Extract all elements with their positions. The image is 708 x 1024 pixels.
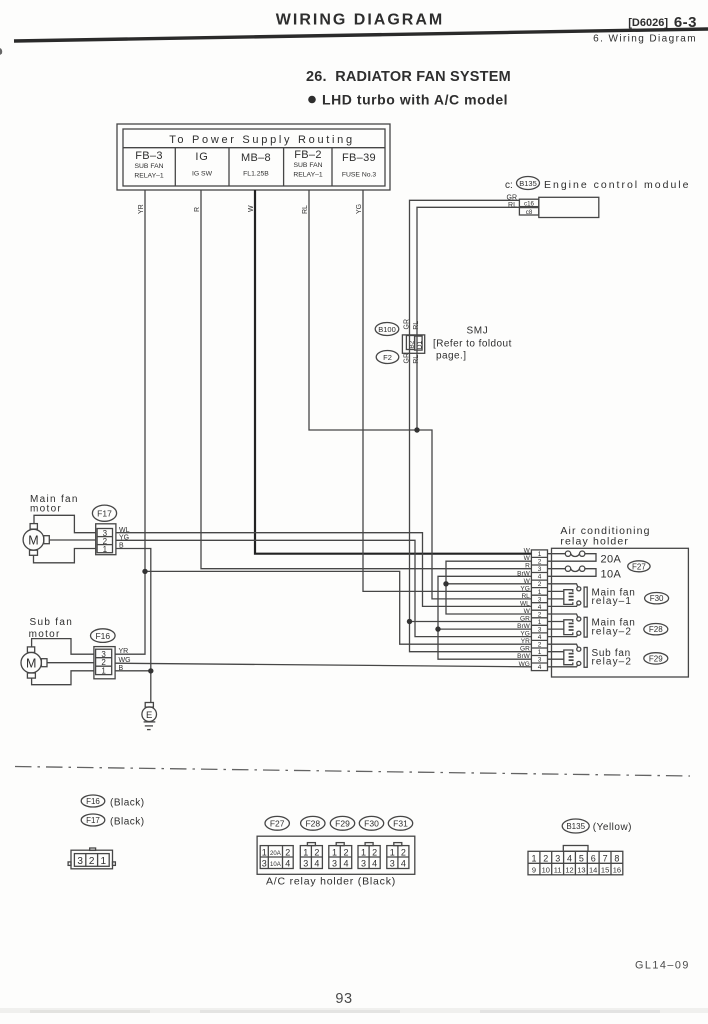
svg-text:1: 1 xyxy=(538,551,542,558)
wire label GR (at ECM) xyxy=(507,194,518,201)
wire label W (power box) xyxy=(248,205,255,212)
svg-text:1: 1 xyxy=(390,848,395,858)
wire YR net from FB-3 to sub fan motor pin 3 xyxy=(115,190,145,654)
air conditioning relay holder title xyxy=(560,525,650,547)
svg-text:10A: 10A xyxy=(270,862,281,868)
svg-text:4: 4 xyxy=(372,859,377,869)
svg-text:YR: YR xyxy=(521,638,530,645)
wire W return from fuse row 2 to relay contacts rows 5 and 9 xyxy=(446,561,531,614)
svg-text:4: 4 xyxy=(538,664,542,671)
svg-text:4: 4 xyxy=(538,604,542,611)
wire RL from ECM pin c8 xyxy=(417,207,519,430)
page edge mark top-left xyxy=(0,48,2,55)
wire label WL (main fan pin 3) xyxy=(119,527,130,534)
fuse cell FB-39 FUSE No.3 xyxy=(342,152,377,179)
relay K2 Main fan relay-2 xyxy=(548,614,588,637)
connector oval F2 xyxy=(376,351,399,364)
svg-text:c:: c: xyxy=(505,180,513,191)
svg-text:3: 3 xyxy=(77,856,83,867)
svg-text:F28: F28 xyxy=(305,819,320,829)
svg-text:2: 2 xyxy=(285,848,290,858)
svg-text:20A: 20A xyxy=(601,553,622,565)
svg-text:motor: motor xyxy=(30,504,62,515)
svg-text:F30: F30 xyxy=(364,819,379,829)
svg-text:5: 5 xyxy=(579,854,584,864)
SMJ connector box xyxy=(402,335,424,353)
svg-text:11: 11 xyxy=(554,866,562,875)
connector oval F29 xyxy=(644,653,668,664)
svg-text:4: 4 xyxy=(538,574,542,581)
sub fan motor label xyxy=(29,617,73,640)
wire B from sub fan pin 1 xyxy=(115,670,151,672)
legend relay block F31 pins xyxy=(387,843,409,869)
connector oval F27 xyxy=(628,561,650,572)
svg-text:1: 1 xyxy=(332,848,337,858)
legend oval F28 xyxy=(301,816,325,830)
svg-text:3: 3 xyxy=(361,859,366,869)
svg-text:B: B xyxy=(119,665,124,672)
svg-text:F27: F27 xyxy=(270,819,285,829)
svg-text:7: 7 xyxy=(603,854,608,864)
svg-text:(Yellow): (Yellow) xyxy=(593,822,632,833)
svg-text:BrW: BrW xyxy=(517,653,531,660)
svg-text:WL: WL xyxy=(119,527,130,534)
svg-text:FL1.25B: FL1.25B xyxy=(243,171,269,178)
svg-text:F17: F17 xyxy=(86,816,100,825)
svg-text:F2: F2 xyxy=(383,353,392,362)
svg-text:F29: F29 xyxy=(649,654,663,663)
svg-text:4: 4 xyxy=(343,859,348,869)
legend relay block F29 pins xyxy=(329,843,352,869)
svg-text:3: 3 xyxy=(262,859,267,869)
SMJ pin D1 xyxy=(415,336,424,350)
svg-text:2: 2 xyxy=(538,559,542,566)
svg-text:[Refer to foldout: [Refer to foldout xyxy=(433,339,512,350)
svg-text:YR: YR xyxy=(119,648,129,655)
svg-text:8: 8 xyxy=(614,854,619,864)
power supply routing box outer frame xyxy=(117,124,390,190)
legend caption A/C relay holder (Black) xyxy=(266,876,396,888)
wire WG from sub fan pin 2 to relay holder row 16 xyxy=(115,663,531,667)
wire RL net from FB-2 to relay holder row 7 xyxy=(309,190,531,599)
power supply routing box inner frame xyxy=(123,129,385,186)
wire label YR (power box) xyxy=(138,204,145,214)
legend oval F29 xyxy=(330,816,354,830)
svg-text:M: M xyxy=(26,657,36,671)
node BrW junction row 11 xyxy=(435,626,440,631)
svg-text:10: 10 xyxy=(542,866,550,875)
svg-text:BrW: BrW xyxy=(517,570,531,577)
svg-text:2: 2 xyxy=(401,848,406,858)
wire WL from main fan pin 3 to relay holder row 8 xyxy=(116,533,532,607)
svg-text:SUB FAN: SUB FAN xyxy=(134,163,163,170)
legend fuse block cells 1 20A 2 / 3 10A 4 xyxy=(260,846,293,869)
svg-text:RL: RL xyxy=(302,205,309,214)
header section label 6. Wiring Diagram xyxy=(593,34,697,45)
svg-text:2: 2 xyxy=(343,848,348,858)
svg-text:W: W xyxy=(524,608,531,615)
section subtitle LHD turbo with A/C model xyxy=(308,92,508,108)
svg-text:1: 1 xyxy=(361,848,366,858)
wire sub fan motor to connector pin 1 xyxy=(32,671,94,685)
svg-text:13: 13 xyxy=(577,866,585,875)
svg-text:SMJ: SMJ xyxy=(467,326,489,337)
svg-text:(Black): (Black) xyxy=(110,816,145,827)
svg-text:[D6026]: [D6026] xyxy=(628,17,668,29)
node RL junction xyxy=(414,427,419,432)
wire label RL (above SMJ) xyxy=(413,321,420,330)
svg-text:F16: F16 xyxy=(86,797,100,806)
fuse cell MB-8 FL1.25B xyxy=(241,152,271,178)
main fan motor label xyxy=(30,494,79,515)
legend A/C relay holder box xyxy=(257,836,415,874)
power box title To Power Supply Routing xyxy=(169,134,355,146)
svg-text:6. Wiring Diagram: 6. Wiring Diagram xyxy=(593,34,697,45)
svg-text:1: 1 xyxy=(101,856,107,867)
node W junction row 5 xyxy=(443,581,448,586)
wire label YG (power box) xyxy=(356,204,363,214)
svg-text:F30: F30 xyxy=(650,594,664,603)
fuse cell IG / IG SW xyxy=(192,151,213,178)
header thick rule xyxy=(14,29,708,41)
wire label B (sub fan pin 1) xyxy=(119,665,124,672)
svg-text:GR: GR xyxy=(520,646,530,653)
svg-text:3: 3 xyxy=(555,854,560,864)
node YR junction xyxy=(142,569,147,574)
scan shadow band bottom xyxy=(0,1008,708,1013)
svg-text:B135: B135 xyxy=(566,822,585,831)
svg-text:B100: B100 xyxy=(378,325,396,334)
sub fan motor M2 xyxy=(21,647,47,678)
relay holder pin strip xyxy=(531,550,547,671)
svg-text:20A: 20A xyxy=(270,851,281,857)
svg-text:14: 14 xyxy=(589,866,597,875)
svg-text:9: 9 xyxy=(532,866,536,875)
ground E xyxy=(142,703,157,730)
legend oval F17 (Black) xyxy=(81,814,144,827)
wire main fan motor to connector pin 2 xyxy=(49,539,95,541)
svg-text:GR: GR xyxy=(520,616,530,623)
svg-text:1: 1 xyxy=(101,667,106,676)
legend oval F16 (Black) xyxy=(81,795,144,808)
wire sub fan motor to connector pin 2 xyxy=(47,662,94,664)
svg-text:RELAY–1: RELAY–1 xyxy=(134,173,164,180)
wire main fan motor to connector pin 1 xyxy=(34,549,96,563)
wire label GR (above SMJ) xyxy=(403,319,410,330)
svg-text:relay–1: relay–1 xyxy=(592,596,633,607)
svg-text:1: 1 xyxy=(538,649,542,656)
svg-text:c16: c16 xyxy=(524,201,535,208)
connector oval F16 xyxy=(91,629,116,643)
svg-text:B135: B135 xyxy=(519,179,537,188)
connector oval B100 xyxy=(375,323,399,336)
svg-text:WG: WG xyxy=(119,657,131,664)
svg-text:WL: WL xyxy=(520,600,530,607)
svg-text:M: M xyxy=(28,534,38,548)
svg-text:LHD turbo with A/C model: LHD turbo with A/C model xyxy=(322,92,508,108)
svg-text:WIRING DIAGRAM: WIRING DIAGRAM xyxy=(276,12,444,29)
svg-text:A/C relay holder (Black): A/C relay holder (Black) xyxy=(266,876,396,888)
header page code [D6026] 6-3 xyxy=(628,14,697,31)
svg-text:W: W xyxy=(524,555,531,562)
svg-text:MB–8: MB–8 xyxy=(241,152,271,164)
fuse 10A xyxy=(548,566,622,580)
svg-text:B: B xyxy=(119,543,124,550)
wire label B (main fan pin 1) xyxy=(119,543,124,550)
svg-text:1: 1 xyxy=(303,848,308,858)
ECM pin c16 xyxy=(519,199,538,207)
wire YG from main fan pin 2 to relay holder row 12 xyxy=(116,540,532,636)
svg-text:IG SW: IG SW xyxy=(192,171,213,178)
wire YG net from FB-39 to relay holder row 6 xyxy=(363,190,531,591)
section title 26. RADIATOR FAN SYSTEM xyxy=(306,69,511,85)
legend oval F27 xyxy=(265,816,289,830)
svg-text:4: 4 xyxy=(538,634,542,641)
svg-text:1: 1 xyxy=(538,589,542,596)
svg-text:2: 2 xyxy=(372,848,377,858)
svg-text:RL: RL xyxy=(413,321,420,330)
svg-text:RL: RL xyxy=(413,355,420,364)
svg-text:1: 1 xyxy=(262,848,267,858)
svg-text:RL: RL xyxy=(521,593,530,600)
wire GR net from ECM pin c16 through SMJ to rows 10 and 14 xyxy=(410,200,532,651)
wire W net (thick) from MB-8 to relay holder row 1 xyxy=(255,190,531,554)
svg-text:2: 2 xyxy=(538,642,542,649)
svg-text:4: 4 xyxy=(567,854,572,864)
connector oval F17 xyxy=(92,505,116,521)
header title WIRING DIAGRAM xyxy=(276,12,444,29)
svg-text:W: W xyxy=(524,578,531,585)
wire sub fan motor to connector pin 3 xyxy=(32,639,94,655)
svg-text:R: R xyxy=(525,563,530,570)
wire label R (power box) xyxy=(194,207,201,212)
svg-text:3: 3 xyxy=(332,859,337,869)
legend fan connector pinout 3 2 1 xyxy=(68,848,115,869)
svg-text:16: 16 xyxy=(613,866,621,875)
svg-text:2: 2 xyxy=(538,581,542,588)
relay K1 label xyxy=(592,587,636,607)
connector oval F28 xyxy=(644,624,668,635)
svg-text:Sub fan: Sub fan xyxy=(30,617,74,628)
svg-text:4: 4 xyxy=(314,859,319,869)
svg-text:3: 3 xyxy=(538,657,542,664)
SMJ note text xyxy=(433,326,512,362)
connector oval F30 xyxy=(645,593,669,604)
svg-text:YR: YR xyxy=(138,204,145,214)
svg-text:15: 15 xyxy=(601,866,609,875)
ECM pin c8 xyxy=(519,208,538,216)
svg-text:4: 4 xyxy=(285,859,290,869)
svg-text:4: 4 xyxy=(401,859,406,869)
svg-text:93: 93 xyxy=(335,991,352,1007)
svg-text:relay–2: relay–2 xyxy=(592,626,633,637)
wire R net from IG to relay holder row 3 xyxy=(201,190,531,569)
svg-text:2: 2 xyxy=(314,848,319,858)
legend B135 connector pinout 1-16 xyxy=(528,846,623,875)
relay K3 label xyxy=(592,648,633,668)
svg-text:c8: c8 xyxy=(526,209,533,216)
wire label YG (main fan pin 2) xyxy=(119,534,129,541)
svg-text:FUSE No.3: FUSE No.3 xyxy=(342,172,377,179)
wire label RL (below SMJ) xyxy=(413,355,420,364)
svg-text:F28: F28 xyxy=(649,625,663,634)
relay holder main box xyxy=(552,548,689,677)
svg-text:page.]: page.] xyxy=(436,351,467,362)
ECM label c:(B135) Engine control module xyxy=(505,177,690,192)
svg-text:1: 1 xyxy=(531,854,536,864)
fuse cell FB-3 SUB FAN RELAY-1 xyxy=(134,150,164,180)
svg-text:Engine control module: Engine control module xyxy=(544,179,690,191)
svg-text:3: 3 xyxy=(538,627,542,634)
svg-text:26. RADIATOR FAN SYSTEM: 26. RADIATOR FAN SYSTEM xyxy=(306,69,511,85)
svg-text:12: 12 xyxy=(565,866,573,875)
svg-text:2: 2 xyxy=(538,611,542,618)
svg-text:YG: YG xyxy=(119,534,129,541)
wire label WG (sub fan pin 2) xyxy=(119,657,131,664)
svg-text:3: 3 xyxy=(538,566,542,573)
legend oval F30 xyxy=(359,816,383,830)
connector F16 pins 3 2 1 xyxy=(94,647,115,679)
svg-text:1: 1 xyxy=(103,545,108,554)
svg-text:SUB FAN: SUB FAN xyxy=(293,162,322,169)
ECM U1 box xyxy=(539,197,599,217)
wire main fan motor to connector pin 3 xyxy=(34,515,96,532)
wire BrW net rows 4 11 15 xyxy=(438,576,531,659)
node GR junction row 10 xyxy=(407,619,412,624)
svg-text:F31: F31 xyxy=(393,819,408,829)
svg-text:3: 3 xyxy=(303,859,308,869)
svg-text:3: 3 xyxy=(538,596,542,603)
svg-text:GL14–09: GL14–09 xyxy=(635,960,690,972)
node B ground junction xyxy=(148,668,153,673)
svg-text:2: 2 xyxy=(543,854,548,864)
svg-text:relay holder: relay holder xyxy=(560,535,629,547)
legend oval F31 xyxy=(388,816,412,830)
relay K3 Sub fan relay-2 xyxy=(548,644,588,667)
relay K1 Main fan relay-1 xyxy=(548,584,588,607)
svg-text:R: R xyxy=(194,207,201,212)
svg-text:2: 2 xyxy=(89,856,95,867)
legend relay block F30 pins xyxy=(358,843,380,869)
svg-text:3: 3 xyxy=(390,859,395,869)
dash-dot separator rule xyxy=(15,767,690,777)
svg-text:1: 1 xyxy=(538,619,542,626)
relay holder pin numbers xyxy=(538,551,542,671)
svg-text:(Black): (Black) xyxy=(110,797,145,808)
connector F17 pins 3 2 1 xyxy=(96,524,116,555)
relay holder wire color labels xyxy=(517,548,531,668)
wire B from main fan pin 1 to ground xyxy=(116,549,151,703)
svg-text:IG: IG xyxy=(195,151,208,163)
page number 93 xyxy=(335,991,352,1007)
wire label GR (below SMJ) xyxy=(403,353,410,364)
legend oval B135 (Yellow) xyxy=(562,819,632,833)
svg-text:YG: YG xyxy=(520,585,529,592)
wire label RL (at ECM) xyxy=(508,202,517,209)
svg-text:BrW: BrW xyxy=(517,623,531,630)
SMJ pin B2 xyxy=(406,336,415,350)
svg-text:F17: F17 xyxy=(97,509,112,519)
svg-text:E: E xyxy=(146,710,152,721)
svg-text:F27: F27 xyxy=(632,562,646,571)
svg-text:F29: F29 xyxy=(335,819,350,829)
svg-text:FB–3: FB–3 xyxy=(135,150,163,162)
legend relay block F28 pins xyxy=(300,843,322,869)
drawing number GL14-09 xyxy=(635,960,690,972)
wire label YR (sub fan pin 3) xyxy=(119,648,129,655)
svg-text:10A: 10A xyxy=(601,568,622,580)
svg-text:FB–39: FB–39 xyxy=(342,152,376,164)
svg-text:relay–2: relay–2 xyxy=(592,657,633,668)
svg-text:WG: WG xyxy=(519,661,530,668)
fuse 20A xyxy=(548,551,622,565)
svg-text:F16: F16 xyxy=(95,631,110,641)
svg-text:6: 6 xyxy=(591,854,596,864)
main fan motor M1 xyxy=(23,524,49,556)
wire label RL (power box) xyxy=(302,205,309,214)
svg-text:FB–2: FB–2 xyxy=(294,149,322,161)
svg-text:YG: YG xyxy=(520,631,529,638)
relay K2 label xyxy=(592,618,636,638)
svg-text:RELAY–1: RELAY–1 xyxy=(293,172,323,179)
svg-text:W: W xyxy=(524,548,531,555)
svg-text:To Power Supply Routing: To Power Supply Routing xyxy=(169,134,355,146)
fuse cell FB-2 SUB FAN RELAY-1 xyxy=(293,149,323,179)
wire YR branch to relay holder row 13 xyxy=(145,571,531,644)
svg-text:YG: YG xyxy=(356,204,363,214)
